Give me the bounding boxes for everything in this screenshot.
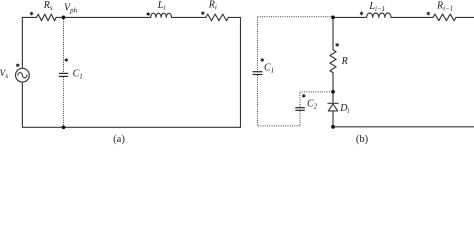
dotted wire: capacitor C1 (a) down to bottom junction (63, 77, 65, 125)
dotted wire: (b) bottom horizontal from C1 branch to C2 branch (259, 125, 300, 127)
wire: mid node down to diode Di cathode bar (332, 92, 334, 104)
resistor Ri-1 (433, 14, 456, 21)
asterisk mark near Ri-1 (427, 12, 430, 15)
dotted wire: capacitor C1 (b) down to bottom dotted corner (257, 75, 259, 126)
wire: bottom of circuit (b) to right edge (333, 126, 474, 128)
svg-text:Di: Di (339, 103, 349, 115)
asterisk mark near R (b) (336, 43, 339, 46)
asterisk mark near Ri (202, 12, 205, 15)
svg-text:Li−1: Li−1 (368, 1, 385, 13)
svg-text:Li: Li (157, 0, 166, 12)
asterisk mark near C1 (b) (261, 59, 264, 62)
asterisk mark near Li-1 (360, 12, 363, 15)
dotted wire: mid horizontal from C2 to node between R and Di (300, 91, 330, 93)
svg-text:C2: C2 (307, 99, 318, 111)
asterisk mark near Li (147, 13, 150, 16)
wire: (b) node to inductor Li-1 (333, 16, 367, 18)
wire: Ri to top-right corner and down right side of (a) (228, 17, 240, 127)
dotted wire: C2 upper terminal up to mid level (299, 93, 301, 107)
resistor R vertical (330, 50, 336, 73)
resistor Rs (37, 14, 57, 21)
dotted wire: (b) top horizontal from C1 branch to node (258, 16, 331, 18)
svg-text:Ri: Ri (208, 0, 217, 12)
svg-text:(b): (b) (356, 134, 369, 145)
wire: Li-1 to Ri-1 (391, 16, 433, 18)
wire: Rs to node Vph (56, 16, 63, 18)
asterisk mark near C1 (a) (65, 59, 68, 62)
wire: circuit (a) top-left segment (22, 16, 36, 18)
dotted wire: node Vph down to capacitor C1 (a) (63, 20, 65, 73)
svg-text:Ri−1: Ri−1 (436, 1, 453, 13)
capacitor C1 (b) plates (253, 71, 263, 73)
wire: Ri-1 to right edge (456, 16, 474, 18)
dotted wire: C2 lower terminal down to bottom dotted corner (299, 111, 301, 125)
asterisk mark near Rs (30, 12, 33, 15)
wire: left side of (a), bottom-left corner up to source (21, 82, 23, 127)
wire: node Vph to inductor Li (64, 16, 151, 18)
node Vph junction dot (62, 16, 66, 20)
svg-text:C1: C1 (264, 63, 274, 75)
capacitor C2 plates (295, 107, 305, 109)
wire: diode Di to bottom junction (332, 111, 334, 127)
asterisk mark near source Vs (17, 64, 20, 67)
node junction dot top of (b) (331, 16, 335, 20)
dotted wire: (b) left vertical down to capacitor C1 (b) (257, 18, 259, 71)
sine wave inside source Vs (18, 73, 27, 78)
svg-text:R: R (341, 56, 348, 67)
inductor Li (151, 13, 172, 17)
wire: source up to top-left corner of (a) (21, 17, 23, 68)
svg-text:Vs: Vs (0, 69, 8, 80)
junction dot on bottom wire of (b) (331, 125, 335, 129)
source Vs circle (16, 68, 30, 82)
junction dot on bottom wire of (a) (62, 125, 66, 129)
diode Di cathode bar (328, 102, 338, 104)
wire: R to mid node (332, 73, 334, 92)
svg-text:C1: C1 (73, 68, 83, 80)
wire: Li to Ri (172, 16, 206, 18)
svg-text:Rs: Rs (43, 0, 53, 12)
svg-text:(a): (a) (113, 134, 125, 145)
diode Di triangle (328, 104, 337, 111)
resistor Ri (206, 14, 229, 21)
svg-text:Vph: Vph (64, 3, 78, 15)
inductor Li-1 (367, 13, 391, 17)
wire: bottom of circuit (a) (22, 126, 240, 128)
capacitor C1 (a) plates (59, 72, 68, 74)
asterisk mark near C2 (303, 94, 306, 97)
junction dot between R and Di (331, 90, 335, 94)
wire: (b) node down to resistor R (332, 17, 334, 49)
